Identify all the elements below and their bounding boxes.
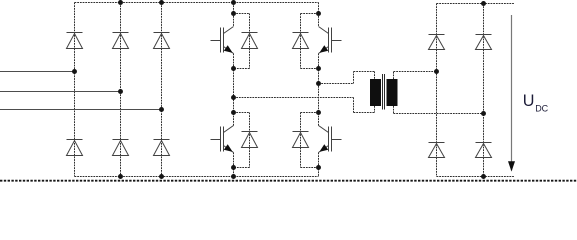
Udc voltage arrow (line) — [511, 15, 513, 171]
wire: leg2 top cell branch — [301, 13, 319, 15]
wire: H-bridge leg2 lower segment — [318, 153, 320, 177]
wire: AC phase input line 1 — [0, 71, 75, 73]
wire: input rectifier leg 2 (vertical) — [120, 3, 122, 177]
wire: AC phase input line 3 — [0, 109, 162, 111]
diode D11 (output rectifier leg1 top) — [429, 35, 445, 50]
diode D3 (input rectifier leg3 top) — [154, 33, 170, 49]
transformer T1 primary winding (filled block) — [370, 79, 381, 106]
transformer T1 core (two lines) — [382, 74, 384, 110]
diode D8 (freewheel, leg2 top IGBT) — [293, 33, 309, 49]
transistor Q1 (IGBT leg1 top) — [211, 27, 234, 54]
diode D7 (freewheel, leg1 top IGBT) — [242, 33, 258, 49]
diode D14 (output rectifier leg2 bottom) — [476, 143, 492, 158]
node: phase1 tap — [72, 69, 77, 74]
svg-text:U: U — [523, 92, 535, 110]
wire: output rectifier top rail — [437, 3, 515, 5]
diode D13 (output rectifier leg1 bottom) — [429, 143, 445, 158]
node: leg1 bottom split — [231, 110, 236, 115]
wire: input rectifier leg 1 (vertical) — [74, 3, 76, 177]
diode D12 (output rectifier leg2 top) — [476, 35, 492, 50]
node: secondary bottom tap on output leg2 — [481, 111, 486, 116]
svg-text:DC: DC — [535, 104, 548, 114]
wire: leg1 bottom cell branch — [234, 112, 250, 114]
wire: transformer secondary bottom to output rectifier leg2 — [393, 106, 395, 114]
wire: leg1 midpoint to transformer primary bottom — [234, 97, 354, 99]
node: phase3 tap — [159, 107, 164, 112]
node: leg1 bottom rejoin — [231, 165, 236, 170]
dashed DC-bus boundary line (bottom) — [0, 180, 577, 182]
transistor Q3 (IGBT leg1 bottom) — [211, 126, 234, 153]
node: leg1 top rejoin — [231, 66, 236, 71]
node: leg2 top rejoin — [316, 66, 321, 71]
wire: output rectifier leg 2 (vertical) — [483, 4, 485, 177]
diode D4 (input rectifier leg1 bottom) — [67, 140, 83, 156]
wire: output rectifier bottom rail — [437, 176, 515, 178]
wire: H-bridge leg1 upper segment — [233, 3, 235, 27]
node: bottom rail / bridge leg1 — [231, 174, 236, 179]
wire: transformer secondary top to output rectifier leg1 — [393, 72, 395, 80]
node: top rail / rect leg3 — [159, 0, 164, 5]
node: top rail / bridge leg1 — [231, 0, 236, 5]
wire: leg1 top cell branch — [234, 13, 250, 15]
diode D5 (input rectifier leg2 bottom) — [113, 140, 129, 156]
diode D1 (input rectifier leg1 top) — [67, 33, 83, 49]
Udc voltage arrow (head) — [508, 161, 515, 171]
wire: H-bridge leg2 upper segment — [318, 3, 320, 27]
diode D10 (freewheel, leg2 bottom IGBT) — [293, 132, 309, 148]
node: output rail / leg2 top — [481, 1, 486, 6]
diode D9 (freewheel, leg1 bottom IGBT) — [242, 132, 258, 148]
node: leg1 top split — [231, 11, 236, 16]
diode D2 (input rectifier leg2 top) — [113, 33, 129, 49]
wire: AC phase input line 2 — [0, 91, 121, 93]
node: leg2 bottom split — [316, 110, 321, 115]
transistor Q4 (IGBT leg2 bottom) — [319, 126, 342, 153]
node: secondary top tap on output leg1 — [434, 69, 439, 74]
transformer T1 secondary winding (filled block) — [387, 79, 398, 106]
node: bottom rail / rect leg2 — [118, 174, 123, 179]
node: leg2 bottom rejoin — [316, 165, 321, 170]
node: phase2 tap — [118, 89, 123, 94]
wire: output rectifier leg 1 (vertical) — [436, 4, 438, 177]
wire: H-bridge leg1 middle segment — [233, 54, 235, 126]
wire: H-bridge leg1 lower segment — [233, 153, 235, 177]
diode D6 (input rectifier leg3 bottom) — [154, 140, 170, 156]
wire: input rectifier leg 3 (vertical) — [161, 3, 163, 177]
node: leg2 midpoint — [316, 81, 321, 86]
wire: negative bottom rail of input rectifier and H-bridge — [75, 176, 319, 178]
node: bottom rail / rect leg3 — [159, 174, 164, 179]
node: top rail / rect leg2 — [118, 0, 123, 5]
wire: leg2 bottom cell branch — [301, 112, 319, 114]
node: output rail / leg2 bottom — [481, 174, 486, 179]
transistor Q2 (IGBT leg2 top) — [319, 27, 342, 54]
wire: leg2 midpoint to transformer primary top — [319, 83, 354, 85]
wire: H-bridge leg2 middle segment — [318, 54, 320, 126]
node: leg1 midpoint — [231, 95, 236, 100]
wire: positive top rail of input rectifier and H-bridge — [75, 2, 319, 4]
node: leg2 top split — [316, 11, 321, 16]
